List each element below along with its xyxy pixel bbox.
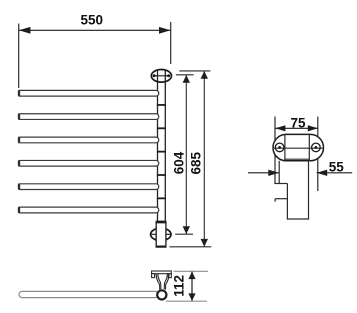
- svg-text:604: 604: [171, 151, 186, 174]
- svg-text:112: 112: [172, 275, 187, 297]
- svg-text:55: 55: [329, 159, 345, 174]
- svg-text:550: 550: [81, 13, 104, 28]
- svg-text:685: 685: [188, 151, 203, 174]
- svg-text:75: 75: [290, 116, 306, 131]
